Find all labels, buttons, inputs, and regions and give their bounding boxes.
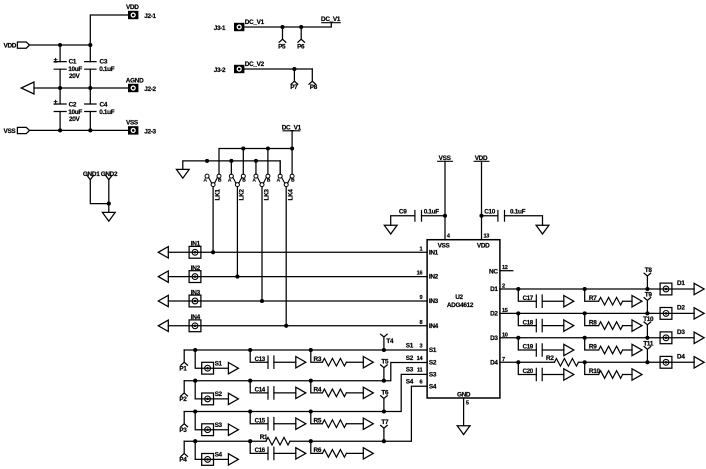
wire GND pin 5 [463,398,465,426]
wire IN2 row [168,276,427,278]
connector pad D1 [660,280,685,295]
svg-text:ADG4612: ADG4612 [447,302,474,309]
wire D4 row [500,361,694,363]
svg-text:GND2: GND2 [101,171,118,178]
svg-text:14: 14 [417,356,424,362]
svg-text:D1: D1 [677,280,685,287]
output arrow (C16) [296,448,306,459]
jumper header LK1 [204,174,222,200]
svg-text:13: 13 [484,234,490,240]
junction VDD/C1 [58,43,62,47]
output arrow (R9) [632,344,642,355]
svg-text:12: 12 [502,265,508,271]
connector pad J3-1 [214,19,265,32]
junction LK4/IN4 [284,324,288,328]
svg-text:S2: S2 [215,391,223,398]
wire DC_V1 riser to B bus [291,131,293,149]
test point T4 [381,334,394,350]
output arrow (D4) [694,357,704,368]
svg-text:P4: P4 [179,457,187,464]
junction C20 branch [516,360,520,364]
junction C17 branch [516,287,520,291]
wire C10 branch [482,216,543,225]
svg-text:J3-1: J3-1 [214,25,226,32]
resistor R9 [589,344,623,354]
svg-text:IN4: IN4 [429,323,439,330]
svg-text:IN1: IN1 [191,241,201,248]
svg-text:R2: R2 [546,355,554,362]
wire B bus [219,149,292,175]
junction R10 branch [583,360,587,364]
svg-text:T5: T5 [381,359,389,366]
svg-text:S4: S4 [215,452,223,459]
junction R4 branch [309,379,313,383]
svg-text:C3: C3 [100,58,108,65]
op IC U2 ADG4612 body [427,240,500,398]
capacitor C18 [523,319,543,332]
svg-text:C1: C1 [69,58,77,65]
output arrow (D2) [694,308,704,319]
analog ground arrow (AGND row) [21,82,34,94]
jumper header LK3 [252,149,270,201]
svg-text:IN3: IN3 [191,289,201,296]
junction C14 branch [248,379,252,383]
svg-text:S4: S4 [429,383,437,390]
wire S4 row [184,386,427,441]
svg-text:20V: 20V [69,73,81,80]
svg-text:DC_V1: DC_V1 [245,19,265,26]
resistor R4 [314,387,347,397]
wire GND1 to node [90,180,109,204]
test point P6 [297,27,305,51]
svg-text:B: B [291,178,295,184]
junction R7 branch [583,287,587,291]
resistor R3 [314,356,347,366]
svg-text:3: 3 [419,343,422,349]
svg-text:C9: C9 [399,209,407,216]
test point P3 [179,412,187,435]
junction VDD/C3 [88,43,92,47]
wire LK4 to IN4 [285,187,287,326]
wire D3 row [500,337,694,339]
junction S3 pad branch [193,409,197,413]
svg-text:10uF: 10uF [68,66,82,73]
jumper header LK4 [277,149,295,201]
svg-text:A: A [228,178,232,184]
svg-text:B: B [267,178,271,184]
wire S2 pad branch [195,381,228,399]
wire S1 row [184,349,427,351]
svg-text:16: 16 [417,271,423,277]
svg-text:C14: C14 [255,387,266,394]
capacitor C19 [523,344,543,357]
output arrow (D3) [694,332,704,343]
junction R8 branch [583,311,587,315]
test point T10 [643,316,654,338]
test point P7 [290,69,298,91]
connector pad S4 [202,452,223,466]
wire IN3 row [168,300,427,302]
svg-text:±: ± [54,98,58,107]
svg-text:LK2: LK2 [239,189,246,201]
svg-text:VDD: VDD [126,4,139,11]
svg-text:J2-3: J2-3 [144,128,156,135]
ground symbol (C10) [536,225,549,234]
junction AGND/C1-C2 [58,86,62,90]
svg-text:D4: D4 [490,359,498,366]
svg-text:P6: P6 [297,44,305,51]
svg-text:8: 8 [419,320,422,326]
svg-text:P2: P2 [179,396,187,403]
svg-text:R7: R7 [589,295,597,302]
test point P8 [309,69,318,91]
wire C20 branch [518,362,564,374]
output arrow (C17) [564,296,574,307]
junction B bus LK3 [266,146,270,150]
input arrow IN3 [158,295,168,306]
svg-text:C17: C17 [523,295,534,302]
wire VSS riser pin 4 [444,161,446,239]
wire C13 branch [250,350,296,362]
svg-text:S4: S4 [406,379,414,386]
resistor R1 (series in S4 line) [260,434,290,445]
junction GND1/GND2 [107,202,111,206]
svg-text:T6: T6 [381,390,389,397]
junction AGND/C3-C4 [88,86,92,90]
junction P7 [292,67,296,71]
connector pad IN2 [189,265,201,283]
junction T6 [382,409,386,413]
wire S1 pad branch [195,350,228,368]
junction T10 [645,336,649,340]
svg-text:6: 6 [419,380,422,386]
test point GND1 [83,171,100,179]
junction DC_V1 riser / B bus [290,146,294,150]
wire S3 row [184,374,427,411]
svg-text:S3: S3 [406,367,414,374]
svg-text:C10: C10 [484,209,496,216]
svg-text:R10: R10 [589,368,601,375]
svg-text:J2-1: J2-1 [144,13,156,20]
connector pad D2 [660,305,685,320]
svg-text:R4: R4 [314,387,322,394]
capacitor C15 [255,417,274,430]
wire DC_V2 from J3-2 [244,68,312,70]
wire S4 pad branch [195,441,228,459]
svg-text:B: B [218,178,222,184]
capacitor C17 [523,295,543,308]
junction S4 pad branch [193,439,197,443]
wire IN4 row [168,325,427,327]
junction R6 branch [309,439,313,443]
output arrow (C20) [564,369,574,380]
junction R9 branch [583,336,587,340]
svg-text:C15: C15 [255,417,266,424]
connector pad S3 [202,422,223,436]
net label DC_V1 (above LK headers) [282,124,302,131]
svg-text:20V: 20V [69,116,81,123]
svg-text:S2: S2 [406,355,414,362]
test point P1 [179,350,187,373]
svg-text:0.1uF: 0.1uF [424,209,440,216]
output arrow (R10) [632,369,642,380]
output arrow (R3) [363,357,373,368]
wire R8 branch [585,313,632,325]
junction VSS/C2 [58,128,62,132]
svg-text:S1: S1 [429,347,437,354]
svg-text:S3: S3 [215,422,223,429]
ground symbol (IC GND) [457,426,470,435]
svg-text:LK1: LK1 [214,189,221,201]
ground symbol (A bus) [176,169,189,178]
svg-text:R8: R8 [589,319,597,326]
svg-text:J2-2: J2-2 [144,86,156,93]
connector pad IN3 [189,289,201,307]
svg-text:P1: P1 [179,366,187,373]
capacitor C10 0.1uF [484,209,525,222]
wire C18 branch [518,313,564,325]
net label VSS (above IC) [438,155,453,162]
wire IN1 row [168,251,427,253]
test point T11 [643,340,654,362]
wire AGND row [34,87,128,89]
connector pad S1 [202,361,223,375]
svg-text:2: 2 [502,284,505,290]
pin NC stub [500,270,513,272]
output arrow (S1 pad) [228,363,238,374]
connector pad IN1 [189,241,201,259]
net label VDD (above IC) [474,155,489,162]
junction R5 branch [309,409,313,413]
svg-text:P8: P8 [310,84,318,91]
svg-text:C19: C19 [523,344,534,351]
output arrow (C19) [564,344,574,355]
svg-text:9: 9 [419,295,422,301]
test point T8 [644,267,652,289]
svg-text:U2: U2 [455,294,463,301]
jumper header LK2 [228,149,246,201]
svg-text:IN4: IN4 [191,314,201,321]
junction C9/VSS [443,214,447,218]
junction T7 [382,439,386,443]
svg-text:D2: D2 [490,311,498,318]
wire R10 branch [585,362,632,374]
svg-text:VDD: VDD [4,42,17,49]
connector pad D3 [660,329,685,344]
wire D2 row [500,312,694,314]
svg-text:DC_V2: DC_V2 [245,61,265,68]
svg-text:0.1uF: 0.1uF [99,66,115,73]
wire C17 branch [518,289,564,301]
svg-text:P3: P3 [179,427,187,434]
junction B bus LK2 [241,146,245,150]
svg-text:J3-2: J3-2 [214,67,226,74]
test point T6 [381,390,389,412]
wire R7 branch [585,289,632,301]
output arrow (R4) [363,387,373,398]
svg-text:C4: C4 [100,101,108,108]
output arrow (C14) [296,387,306,398]
output arrow (S3 pad) [228,424,238,435]
junction A bus LK1 [205,159,209,163]
svg-text:C16: C16 [255,447,266,454]
capacitor C14 [255,387,274,400]
input port flag VDD [4,42,30,49]
resistor R7 [589,295,623,305]
svg-text:IN1: IN1 [429,249,439,256]
wire VSS row [30,129,129,131]
junction T8 [645,287,649,291]
resistor R5 [314,417,347,427]
svg-text:T7: T7 [381,419,389,426]
junction C18 branch [516,311,520,315]
wire C3/C4 vertical branch and riser to J2-1 [90,15,128,130]
net label DC_V1 (top right) [321,16,341,23]
svg-text:R6: R6 [314,447,322,454]
connector pad S2 [202,391,223,405]
test point T5 [381,359,389,381]
wire R4 branch [311,381,364,393]
wire R3 branch [311,350,364,362]
junction A bus LK2 [229,159,233,163]
junction T4 [382,348,386,352]
svg-text:P5: P5 [278,44,286,51]
junction P6 [299,25,303,29]
svg-text:S1: S1 [406,342,414,349]
capacitor C4 0.1uF [85,101,115,116]
test point P2 [179,381,187,404]
svg-text:T10: T10 [643,316,654,323]
connector pad J2-3 (VSS) [126,119,157,135]
capacitor C13 [255,356,274,369]
svg-text:T9: T9 [645,291,653,298]
junction C10/VDD [479,214,483,218]
resistor R2 (series in D4 line) [546,355,578,366]
svg-text:R1: R1 [260,434,268,441]
svg-text:A: A [252,178,256,184]
svg-text:T11: T11 [643,340,654,347]
wire C15 branch [250,412,296,424]
svg-text:C18: C18 [523,319,534,326]
capacitor C9 0.1uF [399,209,439,222]
output arrow (R7) [632,296,642,307]
svg-text:T8: T8 [645,267,653,274]
wire LK1 to IN1 [212,187,214,253]
output arrow (R6) [363,448,373,459]
svg-text:IN2: IN2 [429,274,439,281]
output arrow (R5) [363,418,373,429]
svg-text:B: B [242,178,246,184]
svg-text:4: 4 [447,234,451,240]
svg-text:10: 10 [502,332,508,338]
svg-text:T4: T4 [386,338,394,345]
wire C14 branch [250,381,296,393]
output arrow (C18) [564,320,574,331]
junction LK2/IN2 [235,275,239,279]
svg-text:S3: S3 [429,372,437,379]
svg-text:VDD: VDD [477,243,490,250]
svg-text:5: 5 [466,401,469,407]
svg-text:1: 1 [419,246,422,252]
svg-text:R5: R5 [314,417,322,424]
ground symbol (GND1/GND2) [102,212,115,221]
wire DC_V1 from J3-1 [244,23,331,27]
capacitor C1 10uF 20V (polarized) [54,55,83,80]
junction A bus LK3 [254,159,258,163]
input port flag VSS [4,127,30,134]
wire A bus and drop to ground [183,161,280,174]
svg-text:D1: D1 [490,286,498,293]
junction C13 branch [248,348,252,352]
svg-text:±: ± [54,55,58,64]
svg-text:10uF: 10uF [68,109,82,116]
wire D1 row [500,288,694,290]
wire LK3 to IN3 [261,187,263,301]
capacitor C3 0.1uF [85,58,115,73]
svg-text:R3: R3 [314,356,322,363]
connector pad J3-2 [214,61,265,74]
junction VSS/C4 [88,128,92,132]
resistor R8 [589,319,623,329]
wire R6 branch [311,441,364,453]
wire R5 branch [311,412,364,424]
resistor R6 [314,447,347,457]
wire S2 row [184,363,427,381]
capacitor C16 [255,447,274,460]
junction LK1/IN1 [211,250,215,254]
capacitor C2 10uF 20V (polarized) [54,98,83,123]
wire VDD row [30,44,91,46]
wire S3 pad branch [195,412,228,430]
output arrow (D1) [694,283,704,294]
svg-text:7: 7 [502,357,505,363]
svg-text:P7: P7 [290,84,298,91]
svg-text:S2: S2 [429,360,437,367]
test point T7 [381,419,389,441]
output arrow (C15) [296,418,306,429]
svg-text:R9: R9 [589,344,597,351]
svg-text:IN2: IN2 [191,265,201,272]
svg-text:0.1uF: 0.1uF [510,209,526,216]
input arrow IN4 [158,320,168,331]
test point GND2 [101,171,118,179]
ground symbol (C9) [384,225,397,234]
wire R9 branch [585,338,632,350]
svg-text:AGND: AGND [126,77,144,84]
capacitor C20 [523,368,543,381]
svg-text:C13: C13 [255,356,266,363]
svg-text:IN3: IN3 [429,298,439,305]
junction T11 [645,360,649,364]
IC U2 inside labels [429,243,499,399]
connector pad J2-1 (VDD) [126,4,157,20]
svg-text:0.1uF: 0.1uF [99,109,115,116]
input arrow IN1 [158,247,168,258]
junction S1 pad branch [193,348,197,352]
svg-text:S1: S1 [215,361,223,368]
output arrow (S2 pad) [228,393,238,404]
svg-text:C2: C2 [69,101,77,108]
svg-text:VSS: VSS [4,128,17,135]
wire LK2 to IN2 [236,187,238,277]
test point P5 [278,27,286,51]
svg-text:D4: D4 [677,354,685,361]
wire GND2 to ground [108,180,110,213]
junction C19 branch [516,336,520,340]
junction S2 pad branch [193,379,197,383]
junction C16 branch [248,439,252,443]
junction LK3/IN3 [260,299,264,303]
